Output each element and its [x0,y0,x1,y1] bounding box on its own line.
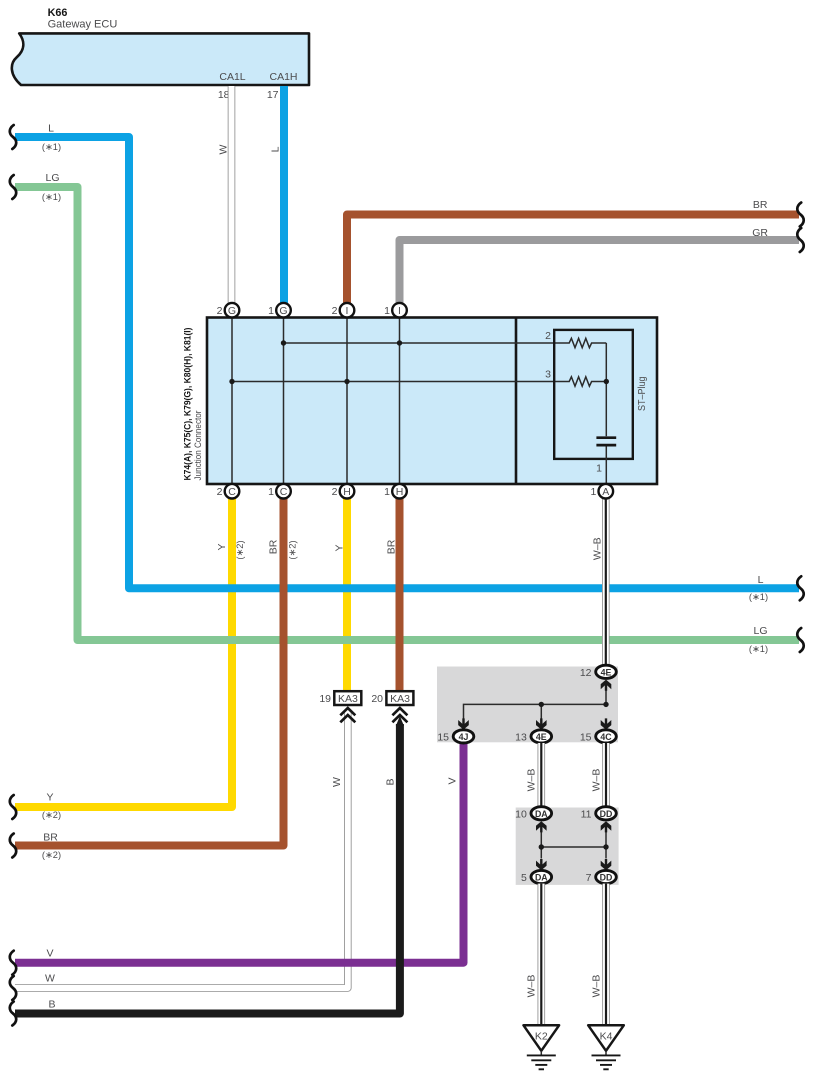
break symbol left W [10,976,16,1000]
svg-text:H: H [343,486,351,498]
pin 1 I [392,303,407,318]
wire internal column I2-H2 [346,318,348,485]
arrow down into 7 DD [601,859,612,870]
svg-text:20: 20 [371,693,383,705]
svg-text:13: 13 [515,731,527,743]
svg-text:5: 5 [521,872,527,884]
component junction connector K74(A) K75(C) K79(G) K80(H) K81(I) [182,318,658,485]
svg-text:L: L [269,146,281,152]
junction connector pin circles [217,303,613,499]
svg-text:(∗1): (∗1) [749,644,768,654]
break symbol right GR [797,228,803,252]
svg-text:Junction Connector: Junction Connector [192,411,203,481]
wire DD column [605,832,607,859]
svg-text:LG: LG [753,625,767,637]
svg-text:(∗2): (∗2) [287,540,297,559]
junction dot DD bus [603,844,608,849]
wire W-B from 7 DD to ground K4 [591,884,606,1026]
resistor lower (pin 3) [568,377,607,386]
svg-text:1: 1 [596,463,602,475]
svg-text:C: C [280,486,288,498]
wire BR (*2) from junction pin 1C to left break [15,499,297,860]
junction dot G2 bus3 [229,379,234,384]
svg-text:V: V [446,777,458,784]
divider between junction section and ST-Plug section [515,318,518,485]
wire bus horizontal [464,704,608,718]
svg-text:2: 2 [217,486,223,498]
wire bus between DA and DD [541,846,606,848]
svg-text:W–B: W–B [526,975,538,998]
svg-text:1: 1 [590,486,596,498]
svg-text:2: 2 [217,305,223,317]
wire internal column I1-H1 [399,318,401,485]
svg-text:Gateway ECU: Gateway ECU [48,19,118,31]
wire Y (*2) from junction pin 2C to left break [15,499,245,820]
junction dot I1 bus2 [397,340,402,345]
svg-text:H: H [396,486,404,498]
svg-text:L: L [48,123,54,135]
wire V (violet) from connector 15 4J to left break [15,744,464,963]
svg-text:KA3: KA3 [338,693,358,705]
svg-text:W–B: W–B [591,769,603,792]
ground K2 [524,1025,560,1069]
svg-text:2: 2 [545,330,551,342]
arrow up into 11 DD [601,821,612,832]
svg-text:W–B: W–B [591,975,603,998]
svg-text:W: W [218,144,230,154]
svg-text:15: 15 [580,731,592,743]
wire W-B from 13 4E to 10 DA [526,743,542,807]
internal wiring of junction connector [229,318,567,485]
svg-text:12: 12 [580,667,592,679]
wire internal bus to ST-Plug pin 3 [232,381,568,383]
svg-text:W–B: W–B [591,537,603,560]
svg-text:G: G [279,305,287,317]
break symbol right L [797,576,803,600]
arrow down into 15 4C [601,718,612,729]
svg-text:K4: K4 [600,1031,613,1043]
pin 1 C [276,484,291,499]
svg-text:4J: 4J [459,732,469,742]
svg-text:ST–Plug: ST–Plug [637,377,648,412]
wire B (black) from connector KA3 20 to left break [15,716,404,1014]
junction dot bus/15-4C [603,702,608,707]
break symbol right LG [797,628,803,652]
svg-text:W–B: W–B [526,769,538,792]
svg-text:V: V [46,948,53,960]
break symbol left LG [10,175,16,199]
svg-text:C: C [228,486,236,498]
chevron pair below KA3 19 [340,708,355,715]
break symbol right BR [797,203,803,227]
pin 2 I [340,303,355,318]
svg-text:4C: 4C [600,732,612,742]
break symbol left L [10,125,16,149]
break symbol left V [10,951,16,975]
wire from 4E down to bus [605,691,607,705]
junction dot I2 bus3 [344,379,349,384]
svg-text:19: 19 [319,693,331,705]
pin 1 G [276,303,291,318]
svg-text:GR: GR [752,227,768,239]
wire drop to 13 4E [540,704,542,718]
wire internal bus to ST-Plug pin 2 [284,342,568,344]
wire BR from right break to junction pin 2I [347,199,799,303]
connector 13 4E [531,730,552,743]
wire L (blue) from CA1H pin 17 to junction pin 1G [269,86,284,303]
resistor upper (pin 2) [568,338,607,347]
wire Y from junction pin 2H to connector KA3 pin 19 [334,499,347,692]
junction dot DA bus [539,844,544,849]
svg-text:CA1H: CA1H [269,71,297,83]
connector 10 DA [531,807,552,820]
svg-text:B: B [384,778,396,785]
shield block connectors 4E/4J/4C [437,665,618,743]
svg-text:BR: BR [268,539,280,554]
connector 15 4C [596,730,617,743]
break symbol left Y [10,795,16,819]
svg-text:W: W [331,777,343,787]
svg-text:K66: K66 [48,7,68,19]
wire LG (green) from left break through corner to right break [15,172,799,654]
svg-text:4E: 4E [601,667,612,677]
svg-text:10: 10 [515,808,527,820]
junction dot bus/13-4E [539,702,544,707]
pin 2 G [225,303,240,318]
wire W-B from 15 4C to 11 DD [591,743,606,807]
svg-text:2: 2 [332,486,338,498]
break symbol left B [10,1002,16,1026]
svg-text:Y: Y [334,544,346,551]
svg-text:1: 1 [384,305,390,317]
shield block connectors DA/DD [515,807,618,885]
wire internal column G1-C1 [283,318,285,485]
svg-text:15: 15 [437,731,449,743]
wire GR (gray) from right break to junction pin 1I [400,227,800,303]
svg-text:(∗1): (∗1) [749,592,768,602]
svg-text:7: 7 [586,872,592,884]
svg-text:2: 2 [332,305,338,317]
wire W-B from 5 DA to ground K2 [526,884,542,1026]
wire internal column G2-C2 [231,318,233,485]
svg-text:I: I [346,305,349,317]
svg-text:(∗1): (∗1) [42,192,61,202]
connector 20 KA3 [371,691,413,722]
arrow down into 5 DA [536,859,547,870]
connector 19 KA3 [319,691,361,722]
connector 11 DD [596,807,617,820]
wire W-B from junction pin 1A to connector 12 4E [591,499,605,667]
ground K4 [588,1025,624,1069]
junction dot resistor 3 output [604,379,609,384]
svg-text:11: 11 [581,808,592,820]
arrow down into 15 4J [458,718,469,729]
svg-text:17: 17 [267,89,279,101]
svg-text:DD: DD [600,873,613,883]
svg-text:Y: Y [216,543,228,550]
svg-text:1: 1 [268,305,274,317]
svg-text:DA: DA [535,873,548,883]
svg-text:I: I [398,305,401,317]
svg-text:4E: 4E [536,732,547,742]
svg-text:DD: DD [600,809,613,819]
wire DA column [540,832,542,859]
svg-text:BR: BR [753,199,768,211]
svg-text:W: W [45,973,55,985]
pin 2 H [340,484,355,499]
svg-text:Y: Y [46,792,53,804]
wire W from CA1L pin 18 to junction pin 2G [218,86,232,303]
svg-text:3: 3 [545,369,551,381]
svg-text:LG: LG [45,172,59,184]
pin 2 C [225,484,240,499]
svg-text:1: 1 [384,486,390,498]
arrow up into 12 4E [601,680,612,691]
svg-text:BR: BR [385,539,397,554]
chevron pair below KA3 20 [392,708,407,715]
connector 15 4J [453,730,474,743]
break symbol left BR [10,834,16,858]
capacitor C [596,436,616,439]
wire from resistors down to capacitor [605,343,607,436]
svg-text:CA1L: CA1L [219,71,245,83]
svg-text:DA: DA [535,809,548,819]
op: Gateway ECU K66 block [12,7,309,101]
svg-text:(∗1): (∗1) [42,142,61,152]
svg-text:(∗2): (∗2) [42,810,61,820]
connector 12 4E [596,665,617,678]
junction dot G1 bus2 [281,340,286,345]
svg-text:1: 1 [268,486,274,498]
svg-text:A: A [602,486,609,498]
connector 5 DA [531,870,552,883]
svg-text:G: G [228,305,236,317]
svg-text:BR: BR [43,832,58,844]
pin 1 H [392,484,407,499]
svg-text:B: B [48,999,55,1011]
svg-text:KA3: KA3 [390,693,410,705]
arrow up into 10 DA [536,821,547,832]
wire BR from junction pin 1H to connector KA3 pin 20 [385,499,399,692]
pin 1 A [599,484,614,499]
svg-text:K2: K2 [535,1031,548,1043]
component ST-Plug [545,330,648,484]
svg-text:L: L [758,574,764,586]
connector 7 DD [596,870,617,883]
component K66 Gateway ECU box [12,33,309,85]
svg-text:(∗2): (∗2) [42,850,61,860]
wire W from connector KA3 19 to left break [15,712,348,988]
arrow down into 13 4E [536,718,547,729]
svg-text:(∗2): (∗2) [235,540,245,559]
wire from capacitor to pin 1A [605,446,607,484]
wire L (blue) from left break through corner to right break [15,123,799,602]
